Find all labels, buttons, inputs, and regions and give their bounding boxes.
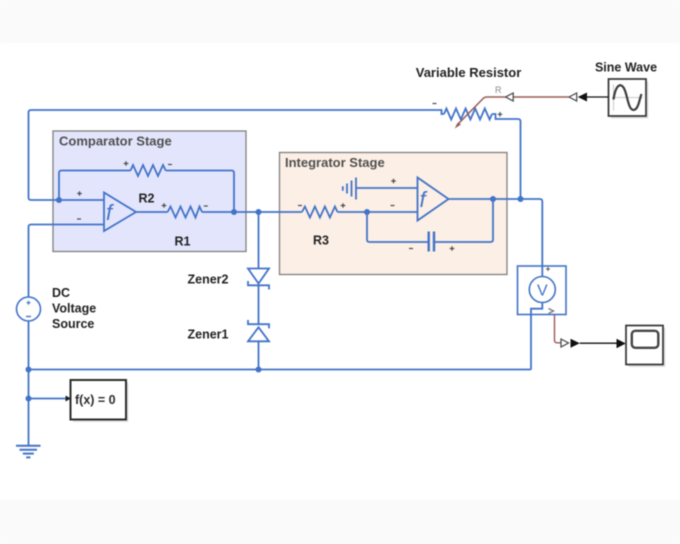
- wire DC source bottom to ground: [28, 321, 30, 446]
- wire integrator output: [449, 198, 521, 200]
- svg-text:Sine Wave: Sine Wave: [595, 61, 657, 75]
- sine wave signal arrow filled: [578, 93, 587, 102]
- signal line converter to scope: [580, 342, 617, 344]
- svg-text:R2: R2: [139, 192, 155, 206]
- zener diode Zener2: [248, 269, 269, 290]
- wire comparator minus input loop to DC source: [29, 225, 105, 298]
- node bus DC source: [26, 367, 32, 373]
- node comparator output: [231, 209, 237, 215]
- f(x)=0 solver block: [71, 380, 129, 422]
- resistor R3 zigzag: [302, 207, 338, 218]
- node zener branch top: [256, 209, 262, 215]
- wire variable resistor right to node above integrator output: [492, 114, 521, 199]
- port marks R3: [298, 203, 345, 208]
- wire solver branch to f(x)=0: [29, 398, 67, 400]
- sine wave block: [609, 79, 649, 119]
- label Zener1: [188, 328, 229, 342]
- node variable resistor branch: [518, 196, 524, 202]
- svg-text:f(x) = 0: f(x) = 0: [75, 393, 116, 407]
- comparator stage area: [53, 131, 246, 252]
- wire R2 feedback right vertical to output node: [166, 171, 234, 213]
- reference ground sideways bars: [343, 178, 356, 200]
- svg-text:Comparator Stage: Comparator Stage: [59, 134, 172, 149]
- sine wave output line: [587, 96, 609, 98]
- converter2 input hollow arrow: [569, 93, 577, 101]
- wire between zeners: [258, 285, 260, 324]
- node bus solver branch: [26, 396, 32, 402]
- svg-text:Source: Source: [52, 317, 94, 331]
- variable resistor wiper line: [455, 97, 506, 129]
- physical signal line sensor to converter: [555, 315, 562, 343]
- node bus zener branch: [256, 367, 262, 373]
- port marks integrator op-amp: [391, 179, 396, 206]
- resistor R1 zigzag: [168, 207, 202, 218]
- variable resistor VR zigzag: [444, 109, 492, 120]
- label R3: [313, 234, 329, 248]
- wire top loop from comparator + input up and right to variable resistor: [29, 110, 445, 200]
- wire output node to voltage sensor: [521, 199, 543, 276]
- wire integrator plus input: [356, 187, 418, 189]
- svg-text:Variable Resistor: Variable Resistor: [416, 65, 522, 80]
- op-amp U1 triangle: [104, 193, 136, 232]
- port marks variable resistor: [433, 104, 503, 117]
- svg-text:Zener1: Zener1: [188, 328, 229, 342]
- svg-text:R1: R1: [175, 235, 191, 249]
- converter output filled arrow: [571, 339, 580, 348]
- voltage sensor block: [518, 266, 567, 315]
- scope input arrowhead: [617, 339, 626, 349]
- svg-text:R3: R3: [313, 234, 329, 248]
- label R2: [139, 192, 155, 206]
- label Variable Resistor: [416, 65, 522, 80]
- f(x)=0 input arrowhead: [66, 396, 72, 402]
- wire op-amp U1 output: [136, 211, 168, 213]
- wire capacitor to output node: [434, 199, 493, 242]
- resistor R2 zigzag: [131, 165, 166, 176]
- svg-text:R: R: [495, 85, 502, 95]
- label Sine Wave: [595, 61, 657, 75]
- op-amp U2 triangle: [418, 178, 449, 221]
- wire R3 to op-amp U2 minus input: [338, 211, 418, 213]
- wire voltage sensor minus drop to bus: [531, 303, 542, 370]
- converter input hollow arrow: [561, 339, 569, 347]
- svg-text:DC: DC: [52, 286, 70, 300]
- DC voltage source circle: [17, 297, 41, 321]
- label Zener2: [188, 273, 229, 287]
- label R1: [175, 235, 191, 249]
- integrator stage area: [280, 153, 508, 275]
- port marks R1: [162, 203, 208, 208]
- zener diode Zener1: [248, 320, 269, 341]
- wire zener branch vertical: [258, 212, 260, 269]
- ground: [16, 446, 41, 458]
- node integrator output: [490, 196, 496, 202]
- wire integrator feedback down: [367, 212, 428, 242]
- op-amp U2 f symbol: [420, 187, 429, 212]
- scope block: [626, 326, 666, 368]
- port marks comparator op-amp: [77, 191, 82, 219]
- wire R2 feedback left vertical: [59, 171, 131, 201]
- op-amp U1 f symbol: [106, 200, 115, 225]
- wire bottom bus: [29, 369, 532, 371]
- capacitor C1 plates: [429, 232, 434, 252]
- wire comparator output to R3: [202, 211, 302, 213]
- svg-text:Integrator Stage: Integrator Stage: [285, 155, 385, 170]
- R port hollow arrow: [506, 93, 514, 101]
- svg-text:Voltage: Voltage: [52, 302, 96, 316]
- svg-text:V: V: [537, 283, 548, 300]
- label DC Voltage Source: [52, 286, 96, 331]
- physical signal line converter2 to variable resistor R port: [514, 96, 570, 98]
- port marks R2: [124, 161, 172, 166]
- R port label: [495, 85, 502, 95]
- node comparator plus input: [56, 197, 62, 203]
- port marks capacitor: [409, 246, 454, 251]
- wire comparator plus input: [59, 199, 104, 201]
- node integrator minus input: [364, 209, 370, 215]
- wire zener1 to bus: [258, 341, 260, 369]
- svg-text:Zener2: Zener2: [188, 273, 229, 287]
